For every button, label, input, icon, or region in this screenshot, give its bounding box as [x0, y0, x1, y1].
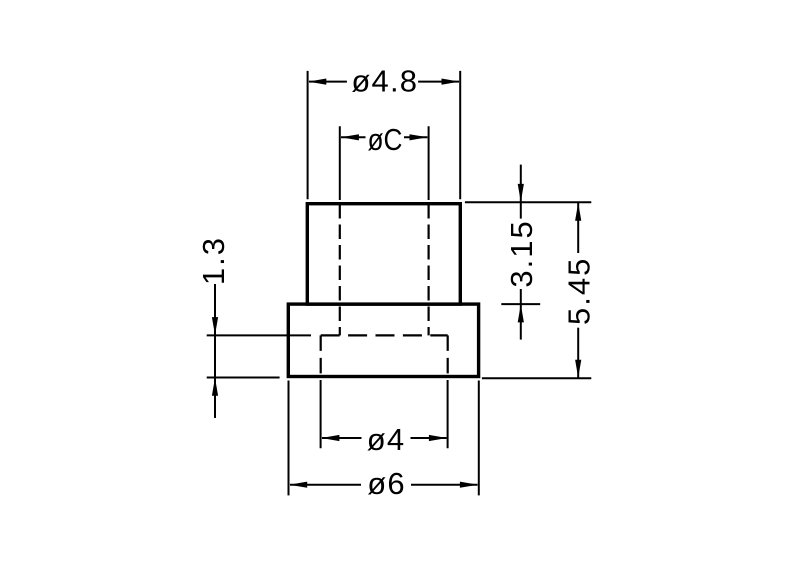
svg-text:1.3: 1.3 [196, 236, 231, 285]
extension line: left lower (1.3 bottom) [207, 377, 280, 379]
part outline: top boss ø4.8 [307, 204, 460, 304]
dimension line: ø4.8 [308, 79, 459, 85]
hidden line: øC bore left [339, 204, 341, 335]
hidden line: ø4 counterbore right [447, 335, 449, 376]
extension line: øC left [339, 126, 341, 200]
svg-text:øC: øC [368, 122, 403, 157]
extension line: ø6 right [478, 381, 480, 496]
extension line: ø4 left [320, 380, 322, 448]
svg-text:5.45: 5.45 [562, 257, 597, 325]
extension line: left upper (1.3 top) [207, 334, 311, 336]
dimension line: ø4 [321, 435, 447, 441]
svg-text:ø4: ø4 [367, 422, 406, 457]
hidden line: ø4 counterbore left [320, 335, 322, 376]
dimension line: 1.3 [212, 284, 218, 418]
svg-text:3.15: 3.15 [504, 219, 539, 287]
extension line: ø4.8 left [307, 71, 309, 199]
hidden line: øC bore right [428, 204, 430, 335]
dimension line: ø6 [289, 482, 478, 488]
extension line: right middle (3.15 bottom) [501, 303, 540, 305]
extension line: ø4 right [447, 380, 449, 448]
extension line: ø4.8 right [459, 71, 461, 199]
extension line: ø6 left [288, 381, 290, 496]
extension line: right top (shared 3.15 / 5.45) [465, 201, 591, 203]
svg-text:ø6: ø6 [367, 466, 406, 501]
part outline: bottom flange ø6 [288, 304, 478, 376]
svg-text:ø4.8: ø4.8 [351, 64, 418, 99]
hidden line: counterbore step [321, 334, 448, 336]
extension line: øC right [428, 126, 430, 200]
dimension line: 5.45 [575, 203, 581, 378]
dimension line: øC [341, 134, 428, 140]
dimension line: 3.15 [518, 165, 524, 340]
extension line: right bottom (5.45 bottom) [482, 377, 591, 379]
